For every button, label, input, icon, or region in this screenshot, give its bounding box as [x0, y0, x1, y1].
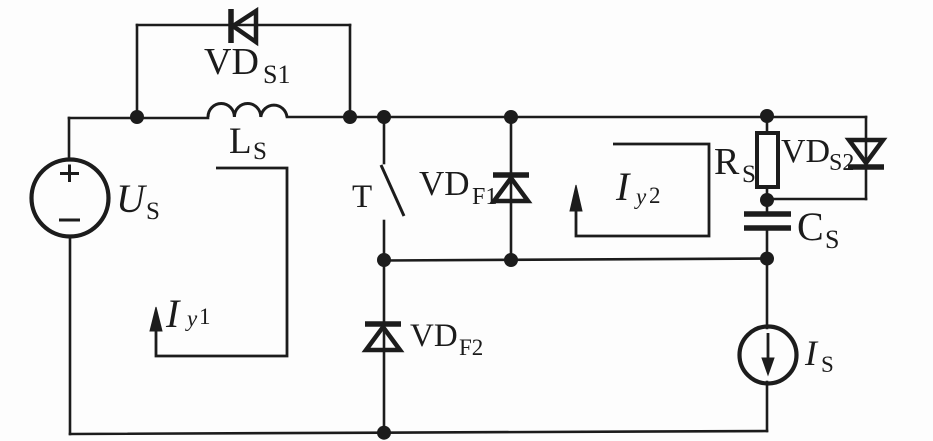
wire main horizontal right segment — [287, 116, 866, 119]
wire top snubber branch right vertical — [349, 25, 352, 117]
wire source top lead — [68, 118, 71, 160]
resistor R_S — [757, 133, 778, 187]
wire VD_S2 branch vertical — [865, 117, 868, 199]
switch T blade — [381, 165, 404, 216]
label VD_F2 — [410, 318, 483, 360]
svg-text:F2: F2 — [459, 335, 483, 360]
svg-text:S2: S2 — [829, 150, 854, 176]
label I_S — [804, 333, 834, 377]
svg-text:U: U — [116, 176, 148, 221]
label I_y2 — [615, 164, 661, 209]
wire R_S top lead — [766, 116, 769, 133]
node dot junction (767,259) — [760, 252, 774, 266]
svg-text:VD: VD — [781, 133, 830, 170]
label I_y1 — [165, 291, 211, 336]
capacitor C_S — [744, 214, 791, 228]
node dot junction (384,260) — [377, 253, 391, 267]
label VD_S2 — [781, 133, 854, 176]
svg-text:S: S — [821, 352, 834, 377]
voltage source U_S — [32, 160, 109, 237]
svg-text:S: S — [742, 161, 756, 188]
svg-text:I: I — [165, 291, 181, 336]
svg-text:S: S — [146, 198, 160, 225]
svg-text:R: R — [714, 141, 740, 183]
label C_S — [797, 204, 839, 254]
label VD_F1 — [419, 164, 497, 210]
node dot junction (767,200) — [760, 193, 774, 207]
node dot junction (511,260) — [504, 253, 518, 267]
inductor L_S — [208, 104, 287, 117]
wire R_S to C_S lead — [766, 187, 769, 214]
wire main horizontal left segment — [69, 117, 208, 120]
wire VD_F2 branch vertical — [383, 260, 386, 434]
node dot junction (511,117) — [504, 110, 518, 124]
wire switch T bottom lead — [383, 221, 386, 260]
node dot junction (767,116) — [760, 109, 774, 123]
svg-text:2: 2 — [649, 183, 661, 208]
node dot junction (350,117) — [343, 110, 357, 124]
label R_S — [714, 141, 756, 188]
wire source bottom lead / left rail — [69, 237, 72, 434]
wire VD_F1 branch vertical — [510, 117, 513, 260]
loop arrow I_y1 — [156, 168, 287, 356]
wire mid horizontal — [384, 259, 767, 261]
diode VD_F2 — [365, 324, 401, 350]
loop arrow I_y2 — [576, 144, 709, 236]
wire bottom rail — [70, 431, 767, 434]
svg-text:S: S — [825, 225, 839, 254]
svg-text:y: y — [634, 184, 647, 209]
svg-text:1: 1 — [199, 304, 211, 329]
svg-text:VD: VD — [204, 41, 259, 83]
label VD_S1 — [204, 41, 290, 89]
current source I_S — [740, 327, 797, 384]
wire C_S bottom lead — [766, 228, 769, 328]
svg-text:VD: VD — [419, 164, 470, 203]
svg-text:T: T — [352, 179, 372, 215]
wire top snubber branch horizontal — [137, 24, 350, 27]
svg-text:S1: S1 — [263, 60, 290, 89]
svg-text:y: y — [185, 306, 198, 331]
wire switch T top lead — [383, 117, 386, 163]
svg-text:C: C — [797, 204, 824, 249]
label L_S — [229, 121, 267, 165]
diode VD_S2 — [848, 140, 884, 167]
svg-text:L: L — [229, 121, 252, 162]
svg-text:VD: VD — [410, 318, 458, 354]
svg-text:S: S — [253, 138, 267, 165]
node dot junction (384,117) — [377, 110, 391, 124]
diode VD_S1 — [231, 9, 256, 43]
node dot junction (384,433) — [377, 426, 391, 440]
label U_S — [116, 176, 160, 225]
svg-text:F1: F1 — [472, 184, 497, 210]
wire VD_S2 bottom horizontal — [767, 198, 866, 201]
wire I_S bottom lead — [766, 382, 769, 431]
svg-text:I: I — [615, 164, 631, 209]
node dot junction (137,117) — [130, 110, 144, 124]
diode VD_F1 — [493, 175, 529, 201]
wire top snubber branch left vertical — [136, 25, 139, 117]
svg-text:I: I — [804, 333, 819, 373]
